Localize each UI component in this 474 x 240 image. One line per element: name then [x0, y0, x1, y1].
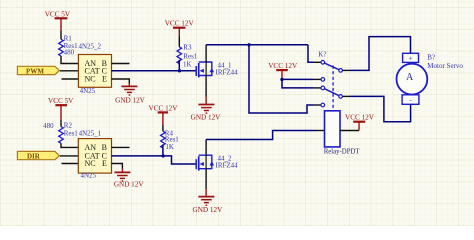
dashed link	[332, 66, 334, 111]
power port VCC 12V (feeds R3)	[165, 19, 195, 36]
resistor R1	[59, 34, 78, 56]
wire Q1 drain pin	[205, 45, 207, 62]
svg-text:A: A	[406, 72, 414, 83]
wire Q1 drain to relay (top wire)	[206, 44, 308, 46]
svg-text:GND 12V: GND 12V	[193, 206, 224, 214]
node VCC junction	[280, 78, 283, 81]
svg-text:GND 12V: GND 12V	[115, 97, 146, 105]
resistor R3	[177, 44, 198, 69]
svg-text:1K: 1K	[165, 143, 174, 151]
svg-text:K?: K?	[318, 51, 326, 59]
node gate2 junction	[161, 154, 164, 157]
power port VCC 5V (top, feeds R1)	[45, 11, 71, 31]
svg-text:Relay-DPDT: Relay-DPDT	[324, 148, 361, 155]
wire R1 to AN pin of U1	[61, 56, 78, 64]
power port VCC 12V (relay contacts)	[268, 62, 298, 79]
optocoupler U2 4N25_1	[78, 130, 111, 180]
wire C1 to gate node	[112, 70, 196, 72]
transistor Q2 IRFZ44 (44_2)	[196, 155, 238, 171]
svg-text:R2: R2	[64, 122, 73, 130]
wire DIR to CAT pin	[60, 155, 78, 157]
wire Q2 drain to relay coil	[206, 131, 316, 140]
relay coil Relay-DPDT	[324, 111, 361, 156]
wire Q1 source to ground	[205, 76, 207, 97]
power port VCC 12V (coil)	[345, 113, 375, 130]
wire R2 to AN pin of U2	[61, 143, 78, 147]
svg-text:Res1: Res1	[183, 52, 198, 60]
wire K1 common to motor +	[350, 37, 411, 71]
svg-text:VCC 12V: VCC 12V	[165, 19, 195, 27]
power port VCC 12V (feeds R4)	[149, 105, 179, 125]
ground GND 12V (Q2 source)	[193, 197, 224, 214]
svg-text:GND 12V: GND 12V	[191, 114, 222, 122]
resistor R4	[161, 130, 180, 151]
svg-text:4N25_2: 4N25_2	[79, 42, 102, 50]
ground GND 12V (Q1 source)	[191, 105, 222, 122]
wire VCC to contact K2-NO	[282, 79, 313, 88]
wire NC2 stub	[62, 163, 79, 165]
wire VCC12V to R3	[178, 37, 180, 47]
svg-text:R3: R3	[183, 44, 192, 52]
svg-text:4N25: 4N25	[81, 171, 97, 179]
svg-text:480: 480	[43, 122, 54, 130]
svg-text:DIR: DIR	[27, 152, 41, 160]
svg-text:NC: NC	[85, 74, 96, 83]
wire Q2 source to ground	[205, 169, 207, 189]
wire B1 stub	[112, 63, 130, 65]
svg-text:VCC 5V: VCC 5V	[48, 97, 74, 105]
wire junction down to contact K2-NC	[249, 45, 313, 113]
wire E2 to ground	[112, 164, 123, 169]
wire PWM to CAT pin	[60, 70, 79, 72]
wire VCC to contact K1-NC	[282, 78, 313, 80]
relay K? contacts	[318, 51, 342, 111]
transistor Q1 IRFZ44 (44_1)	[196, 62, 238, 78]
wire NC stub	[62, 78, 79, 80]
svg-text:E: E	[102, 74, 107, 83]
svg-text:VCC 12V: VCC 12V	[268, 62, 298, 70]
wire E1 to ground	[112, 79, 130, 83]
wire Q2 drain pin	[205, 140, 207, 156]
power port VCC 5V (feeds R2)	[48, 97, 74, 120]
svg-text:+: +	[409, 55, 413, 63]
svg-text:VCC 12V: VCC 12V	[345, 113, 375, 121]
resistor R2	[43, 122, 78, 144]
svg-text:NC: NC	[85, 159, 96, 168]
svg-text:Res1: Res1	[64, 129, 79, 137]
svg-text:1K: 1K	[183, 61, 192, 69]
wire K2 common to motor -	[350, 96, 411, 121]
wire R4 to gate2 node	[162, 145, 164, 156]
svg-text:B?: B?	[427, 54, 435, 62]
svg-text:PWM: PWM	[26, 67, 44, 75]
svg-text:E: E	[102, 159, 107, 168]
arm pole2	[323, 88, 341, 97]
wire VCC5V to R2	[60, 120, 62, 127]
svg-text:Motor Servo: Motor Servo	[427, 62, 463, 70]
wire VCC5V to R1	[60, 31, 62, 40]
svg-text:IRFZ44: IRFZ44	[216, 162, 239, 170]
ground GND 12V (U2 emitter)	[114, 172, 145, 188]
port DIR	[17, 151, 59, 160]
port PWM	[17, 66, 59, 75]
node top-wire junction	[247, 43, 250, 46]
wire B2 stub	[112, 146, 130, 148]
optocoupler U1 4N25_2	[78, 42, 111, 95]
wire down to contact K1-NO	[308, 45, 313, 63]
svg-text:480: 480	[64, 49, 75, 57]
node gate1 junction	[178, 69, 181, 72]
wire R3 to gate node	[178, 60, 180, 71]
wire C2 to gate2 node	[112, 156, 196, 164]
contact circles	[321, 61, 325, 65]
svg-text:4N25: 4N25	[80, 87, 96, 95]
wire VCC12V to R4	[162, 125, 164, 131]
svg-text:4N25_1: 4N25_1	[79, 130, 102, 138]
svg-text:GND 12V: GND 12V	[114, 181, 145, 189]
wire coil right to VCC	[340, 130, 359, 132]
svg-text:IRFZ44: IRFZ44	[216, 69, 239, 77]
arm pole1	[323, 62, 341, 70]
ground GND 12V (U1 emitter)	[115, 86, 146, 104]
motor B? Motor Servo	[397, 53, 464, 104]
